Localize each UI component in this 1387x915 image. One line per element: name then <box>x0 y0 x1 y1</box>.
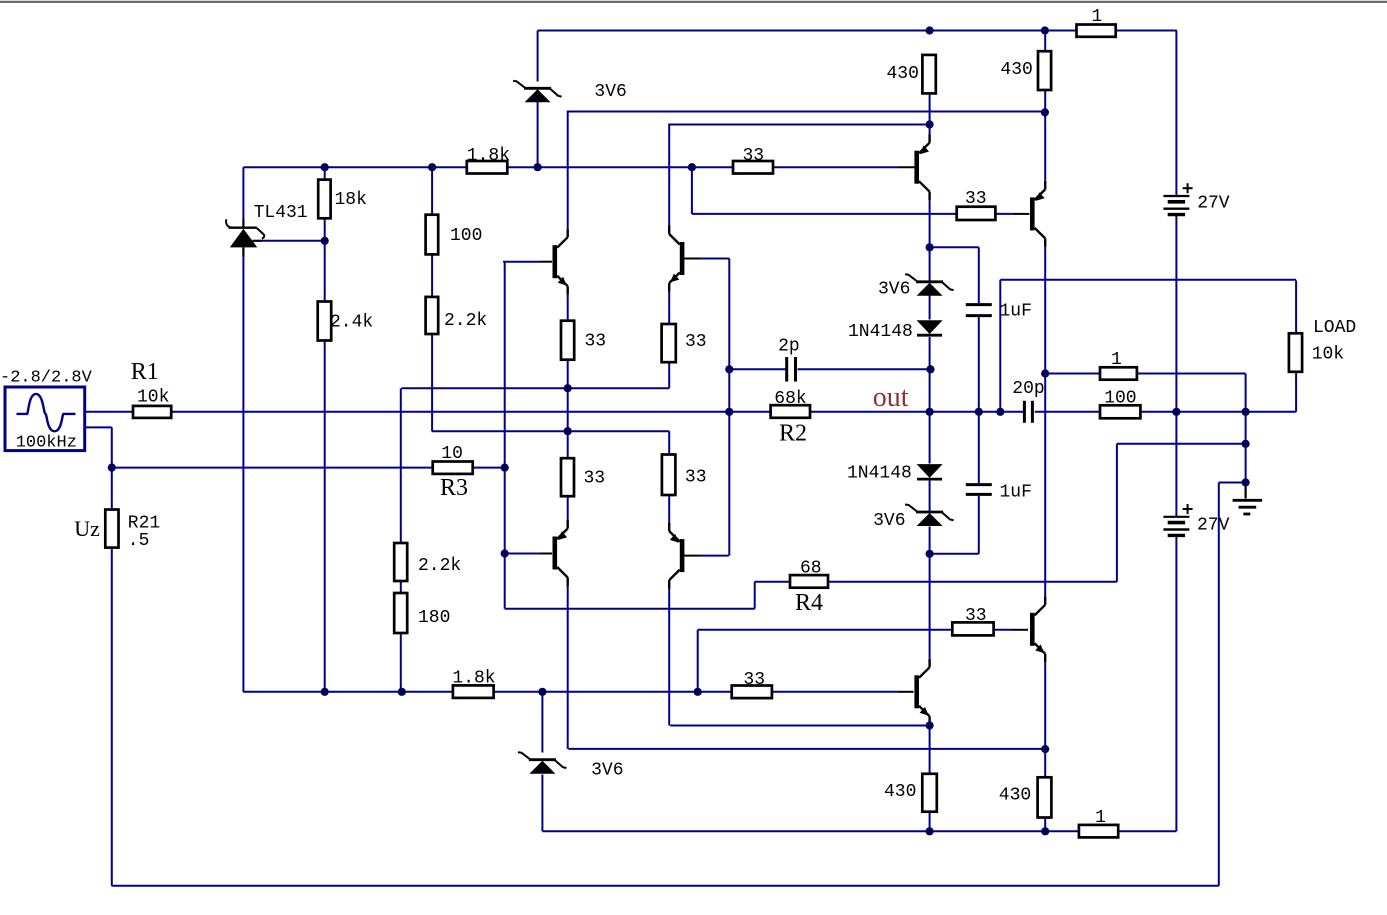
svg-text:1uF: 1uF <box>1000 482 1032 502</box>
svg-text:LOAD: LOAD <box>1313 318 1356 338</box>
svg-text:1.8k: 1.8k <box>467 146 510 166</box>
svg-text:1uF: 1uF <box>1000 302 1032 322</box>
svg-text:3V6: 3V6 <box>878 280 910 300</box>
svg-text:R4: R4 <box>795 590 823 616</box>
svg-text:2.2k: 2.2k <box>418 556 461 576</box>
svg-text:68k: 68k <box>774 389 806 409</box>
svg-text:1.8k: 1.8k <box>452 669 495 689</box>
svg-text:1: 1 <box>1111 350 1122 370</box>
svg-text:27V: 27V <box>1197 194 1230 214</box>
svg-text:33: 33 <box>965 189 987 209</box>
svg-text:27V: 27V <box>1197 516 1230 536</box>
svg-text:2.2k: 2.2k <box>444 311 487 331</box>
svg-text:10: 10 <box>441 444 463 464</box>
svg-text:3V6: 3V6 <box>594 82 626 102</box>
svg-text:1N4148: 1N4148 <box>848 322 913 342</box>
svg-text:Uz: Uz <box>74 516 100 541</box>
svg-text:68: 68 <box>800 559 822 579</box>
svg-text:10k: 10k <box>137 387 169 407</box>
svg-text:R2: R2 <box>779 421 807 447</box>
svg-text:TL431: TL431 <box>254 203 308 223</box>
svg-text:1: 1 <box>1095 808 1106 828</box>
svg-text:2.4k: 2.4k <box>330 313 373 333</box>
svg-text:R3: R3 <box>440 475 468 501</box>
svg-text:33: 33 <box>685 332 707 352</box>
svg-text:.5: .5 <box>128 531 150 551</box>
svg-text:20p: 20p <box>1012 379 1044 399</box>
svg-text:430: 430 <box>884 782 916 802</box>
svg-text:R1: R1 <box>131 359 159 385</box>
svg-text:33: 33 <box>585 332 607 352</box>
svg-text:430: 430 <box>1000 60 1032 80</box>
svg-text:33: 33 <box>743 670 765 690</box>
svg-text:33: 33 <box>685 468 707 488</box>
svg-text:100: 100 <box>450 226 482 246</box>
svg-text:-2.8/2.8V: -2.8/2.8V <box>0 369 93 388</box>
svg-text:out: out <box>873 382 909 413</box>
svg-text:33: 33 <box>965 606 987 626</box>
svg-text:2p: 2p <box>778 337 800 357</box>
svg-text:33: 33 <box>584 469 606 489</box>
svg-text:430: 430 <box>999 786 1031 806</box>
svg-text:1: 1 <box>1092 7 1103 27</box>
svg-text:3V6: 3V6 <box>873 511 905 531</box>
svg-text:100: 100 <box>1104 388 1136 408</box>
svg-text:1N4148: 1N4148 <box>847 464 912 484</box>
svg-text:430: 430 <box>887 64 919 84</box>
svg-text:3V6: 3V6 <box>591 760 623 780</box>
svg-text:100kHz: 100kHz <box>16 434 77 453</box>
svg-text:180: 180 <box>418 608 450 628</box>
svg-text:33: 33 <box>743 146 765 166</box>
svg-text:18k: 18k <box>335 190 367 210</box>
svg-text:10k: 10k <box>1312 345 1344 365</box>
